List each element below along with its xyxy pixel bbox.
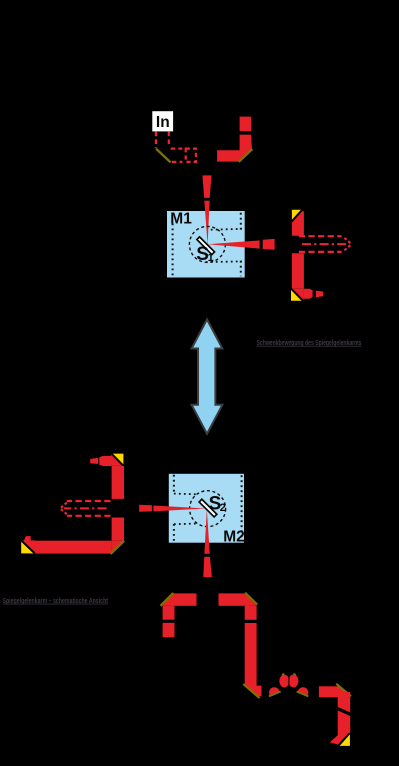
joint hinge tick right (olive) — [293, 674, 295, 675]
output elbow black cut — [337, 683, 352, 698]
movable output pipe tip lower — [344, 244, 351, 250]
output vertical pipe upper segment — [338, 692, 351, 713]
double-headed motion arrow — [192, 319, 223, 434]
left arm top red corner (45-degree cut) — [111, 453, 123, 466]
bottom right pipe long segment with joint cut — [245, 623, 262, 696]
movable output pipe tip upper — [344, 238, 351, 244]
bottom left pipe upper segment — [163, 606, 175, 620]
joint left half-disc seat (olive) — [269, 692, 281, 697]
bottom right elbow corner — [245, 593, 257, 605]
left arm top mirror mount (yellow) — [112, 454, 124, 466]
left arm end mirror face (black diagonal) — [21, 540, 35, 553]
svg-text:2: 2 — [220, 502, 226, 514]
M2 dotted border right — [241, 475, 243, 541]
right arm lower detached taper piece — [316, 291, 323, 298]
M1 sweep dotted line lower — [206, 260, 242, 263]
movable input pipe tip lower — [60, 508, 67, 514]
left arm end red bump — [24, 536, 31, 540]
bottom right elbow arm — [219, 593, 252, 605]
left arm end mirror mount (yellow) — [21, 541, 34, 554]
beam M1 to right arm (cap trapezoid) — [263, 239, 275, 250]
left arm top detached taper piece — [90, 458, 98, 464]
left arm top mirror face (black diagonal) — [111, 453, 123, 466]
M1 dotted border right upper — [240, 213, 242, 230]
joint right half-disc — [298, 687, 309, 695]
dashed input pipe vertical wall left — [155, 132, 157, 149]
movable input pipe tip upper — [60, 503, 67, 509]
movable output pipe dash-dot centerline — [302, 243, 346, 245]
output vertical pipe lower segment with end cut — [330, 710, 351, 745]
movable input pipe dashed wall bottom — [67, 515, 111, 517]
beam M1 to right arm (converging from mirror) — [208, 240, 260, 248]
output elbow chamfer (olive) — [336, 684, 351, 697]
svg-text:M1: M1 — [170, 211, 192, 228]
dashed pipe flange segment (square) — [186, 149, 196, 162]
bottom right elbow chamfer (olive) — [245, 593, 257, 605]
dashed input pipe horizontal wall bottom — [172, 161, 183, 163]
dashed input pipe vertical wall right — [168, 132, 170, 147]
beam M2 down (lower trapezoid) — [203, 557, 212, 577]
left arm end mirror red corner — [21, 540, 35, 553]
bottom left elbow corner — [163, 593, 175, 605]
joint cut chamfer (olive) — [243, 684, 259, 698]
beam M2 to left arm (cap trapezoid) — [139, 505, 152, 512]
faint caption lower underline (dark) — [3, 603, 108, 605]
bottom right elbow black cut — [245, 592, 257, 605]
beam from input into M1 (upper trapezoid) — [202, 175, 211, 198]
output horizontal pipe — [319, 686, 350, 697]
left arm bottom elbow chamfer (olive) — [111, 541, 125, 554]
right arm spine top segment (45-degree cut) — [292, 210, 304, 236]
right arm lower mirror face (black diagonal) — [291, 289, 303, 301]
right arm spine mid segment — [292, 253, 304, 289]
beam M2 to left arm (converging from mirror) — [153, 506, 206, 512]
left arm top horizontal stub (tapered) — [99, 456, 111, 466]
dashed input pipe horizontal wall top — [171, 148, 183, 150]
bottom right pipe upper segment — [245, 606, 257, 620]
M2 dotted border left upper — [173, 475, 175, 494]
beam from input into M1 (converging triangle) — [204, 201, 209, 245]
scanner box M2 — [169, 474, 244, 543]
faint caption upper underline (dark) — [257, 345, 362, 347]
right arm top mirror face (black diagonal) — [292, 210, 303, 222]
movable output pipe dashed wall bottom — [299, 251, 342, 253]
bottom left elbow arm — [168, 593, 197, 605]
mirror plate S1 — [197, 237, 215, 255]
output end mirror mount (yellow) — [340, 734, 350, 746]
bottom left elbow chamfer (olive) — [161, 593, 174, 606]
left arm bottom horizontal arm — [30, 541, 112, 554]
movable input pipe dash-dot centerline — [64, 507, 107, 509]
svg-text:1: 1 — [208, 252, 214, 264]
svg-text:M2: M2 — [223, 528, 245, 545]
svg-text:Schwenkbewegung des Spiegelgel: Schwenkbewegung des Spiegelgelenkarms — [257, 340, 362, 347]
scanner box M1 — [167, 211, 245, 278]
svg-text:Spiegelgelenkarm – schematisch: Spiegelgelenkarm – schematische Ansicht — [3, 598, 109, 605]
movable output pipe dashed wall top — [299, 235, 342, 237]
rotation circle of mirror S2 (dashed) — [190, 491, 226, 527]
mirror plate S2 — [199, 499, 217, 517]
right arm lower mirror mount (yellow) — [291, 289, 303, 301]
M2 sweep dotted line lower — [174, 523, 199, 526]
joint hinge tick left (olive) — [282, 674, 284, 675]
M1 dotted border left — [172, 224, 174, 276]
bottom left elbow black cut — [159, 593, 173, 607]
input label In — [152, 111, 173, 131]
right arm lower horizontal stub (tapered) — [304, 289, 313, 299]
joint hinge disc left — [279, 675, 289, 688]
rotation circle of mirror S1 (dashed) — [189, 226, 225, 262]
joint hinge split line — [288, 674, 290, 687]
right arm lower elbow red corner — [292, 289, 304, 301]
M2 sweep dotted line upper — [174, 493, 197, 496]
svg-text:In: In — [156, 114, 170, 131]
joint right half-disc seat (olive) — [297, 692, 309, 697]
input elbow mirror chamfer (olive) — [156, 149, 171, 163]
beam M2 down (converging triangle) — [204, 509, 209, 554]
right arm top mirror mount (yellow) — [292, 210, 302, 221]
bottom left pipe lower segment — [163, 623, 175, 637]
output end mirror face (black diagonal) — [339, 733, 350, 745]
joint left half-disc — [269, 687, 280, 695]
left arm spine lower segment — [112, 518, 124, 541]
left arm bottom elbow red corner — [112, 541, 124, 554]
joint hinge disc right — [289, 675, 299, 688]
movable input pipe dashed wall top — [67, 500, 111, 502]
solid feed pipe lower segment with elbow and left arm — [217, 135, 252, 162]
solid feed pipe upper segment — [240, 117, 252, 132]
M2 dotted border left lower — [173, 524, 175, 542]
M1 sweep dotted line upper — [211, 228, 242, 231]
left arm spine upper segment — [112, 466, 124, 499]
feed elbow mirror chamfer (olive) — [239, 149, 253, 162]
M1 dotted border right lower — [240, 261, 242, 277]
